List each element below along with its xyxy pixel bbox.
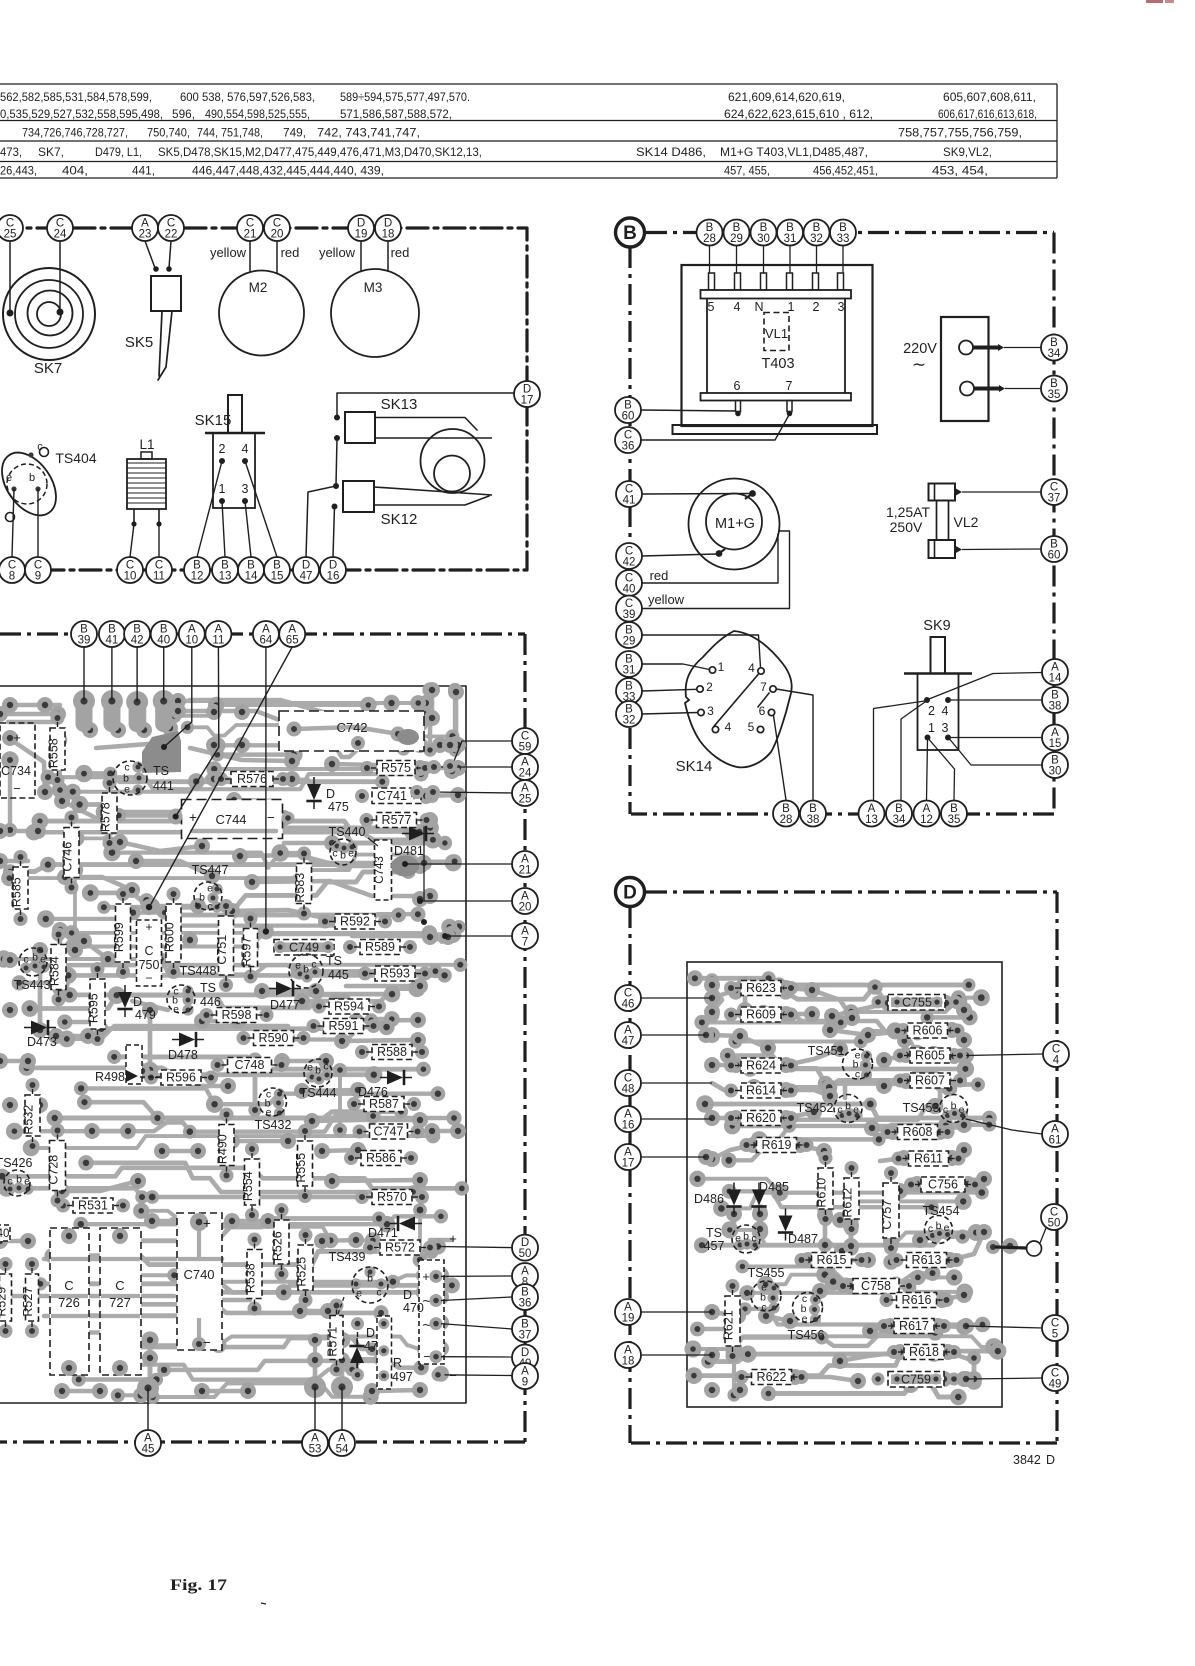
svg-text:R617: R617: [899, 1319, 929, 1333]
svg-text:2: 2: [813, 300, 820, 314]
resistor R614: [724, 1083, 798, 1098]
wire A47 to PCB D: [641, 1034, 706, 1036]
svg-text:46: 46: [622, 999, 635, 1011]
capacitor C747: [353, 1124, 425, 1139]
motor M2: [219, 271, 304, 356]
svg-text:D: D: [366, 1326, 375, 1340]
svg-text:∼: ∼: [912, 355, 926, 374]
svg-text:e: e: [295, 960, 301, 972]
PCB D copper traces: [693, 978, 998, 1397]
transistor TS454: [923, 1204, 960, 1244]
diode D471: [368, 1216, 422, 1240]
wire L1 to C10: [130, 524, 134, 557]
svg-text:R577: R577: [382, 813, 412, 827]
resistor R615: [795, 1253, 869, 1268]
node A8 (right): [512, 1263, 538, 1289]
svg-text:yellow: yellow: [319, 245, 356, 260]
svg-text:12: 12: [191, 571, 204, 583]
svg-text:+: +: [422, 1269, 430, 1284]
node A23: [132, 215, 158, 241]
svg-text:3: 3: [838, 300, 845, 314]
svg-text:4: 4: [242, 442, 249, 456]
node D50 (right): [512, 1235, 538, 1261]
svg-text:D: D: [403, 1288, 412, 1302]
node A11 (top): [205, 621, 231, 647]
node C9: [25, 557, 51, 583]
svg-text:R614: R614: [746, 1084, 776, 1098]
svg-text:R590: R590: [259, 1031, 289, 1045]
svg-text:39: 39: [78, 635, 91, 647]
svg-text:1,25AT: 1,25AT: [886, 504, 931, 520]
resistor R526: [271, 1203, 290, 1281]
svg-text:c: c: [207, 901, 212, 913]
resistor R555: [294, 1124, 313, 1203]
transistor TS444: [300, 1059, 337, 1100]
svg-text:22: 22: [165, 229, 178, 241]
parts table row 2: [0, 108, 1037, 121]
section B badge: [616, 218, 645, 247]
resistor R599: [112, 887, 131, 979]
svg-text:61: 61: [1049, 1135, 1062, 1147]
resistor R616: [880, 1293, 954, 1308]
rectifier D470 terminals (dashed box): [419, 1260, 444, 1364]
svg-text:10: 10: [124, 571, 137, 583]
resistor R592: [318, 914, 392, 929]
resistor R498 (pointer): [95, 1045, 160, 1084]
resistor R490: [216, 1108, 235, 1183]
node A10 (top): [179, 621, 205, 647]
svg-text:457: 457: [704, 1239, 725, 1253]
svg-text:40: 40: [623, 584, 636, 596]
wire A45: [147, 1388, 149, 1430]
node B60 (left): [615, 397, 641, 423]
svg-text:c: c: [855, 1069, 860, 1081]
resistor R594: [312, 999, 386, 1014]
svg-text:441: 441: [153, 779, 174, 793]
svg-text:D486: D486: [694, 1192, 724, 1206]
svg-text:19: 19: [355, 229, 368, 241]
svg-text:TS447: TS447: [192, 863, 229, 877]
svg-text:b: b: [315, 1065, 321, 1077]
svg-text:42: 42: [623, 557, 636, 569]
svg-text:yellow: yellow: [648, 592, 685, 607]
capacitor C726: [50, 1228, 89, 1376]
wire C40 to M1+G (red): [642, 534, 778, 583]
label D470: [403, 1288, 424, 1315]
svg-text:R605: R605: [915, 1049, 945, 1063]
node C24: [47, 215, 73, 241]
node C5: [1042, 1315, 1068, 1341]
svg-text:e: e: [307, 1062, 313, 1074]
svg-text:38: 38: [807, 814, 820, 826]
capacitor C741: [355, 788, 439, 804]
svg-text:b: b: [936, 1220, 942, 1232]
svg-text:12: 12: [920, 814, 933, 826]
svg-text:c: c: [376, 1287, 381, 1299]
svg-text:TS440: TS440: [329, 825, 366, 839]
wire B37: [441, 1324, 512, 1329]
svg-text:e: e: [959, 1104, 965, 1116]
node A13 (bottom): [859, 801, 885, 827]
svg-text:490,554,598,525,555,: 490,554,598,525,555,: [205, 108, 310, 121]
node B31 (left): [616, 651, 642, 677]
svg-text:758,757,755,756,759,: 758,757,755,756,759,: [898, 127, 1022, 140]
svg-text:−: −: [267, 810, 275, 825]
svg-text:C: C: [144, 944, 153, 958]
transistor TS453: [903, 1095, 969, 1123]
svg-text:C748: C748: [235, 1058, 265, 1072]
svg-text:D487: D487: [788, 1232, 818, 1246]
svg-text:621,609,614,620,619,: 621,609,614,620,619,: [728, 91, 845, 104]
svg-text:b: b: [199, 892, 205, 904]
svg-text:R: R: [393, 1356, 402, 1370]
svg-text:29: 29: [623, 636, 636, 648]
wire C36 to T403 pin7: [641, 414, 790, 440]
resistor R600: [163, 887, 182, 979]
wire A11 to PCB: [176, 647, 219, 817]
svg-text:D471: D471: [368, 1226, 398, 1240]
resistor R587: [347, 1097, 421, 1112]
svg-text:e: e: [356, 1288, 362, 1300]
svg-text:29: 29: [730, 233, 743, 245]
svg-text:C756: C756: [928, 1178, 958, 1192]
svg-text:20: 20: [271, 229, 284, 241]
node D47: [293, 557, 319, 583]
svg-text:32: 32: [623, 715, 636, 727]
svg-text:TS404: TS404: [55, 450, 96, 466]
svg-text:3: 3: [242, 482, 249, 496]
svg-text:53: 53: [309, 1444, 322, 1456]
wire A64 to PCB: [265, 647, 267, 932]
wire C41 to M1+G: [642, 493, 750, 496]
switch SK12: [332, 481, 493, 528]
svg-text:R527: R527: [21, 1287, 35, 1317]
node A15: [1042, 725, 1068, 751]
svg-text:30: 30: [757, 233, 770, 245]
svg-text:R624: R624: [746, 1059, 776, 1073]
svg-text:b: b: [367, 1273, 373, 1285]
svg-text:9: 9: [35, 571, 41, 583]
node B39 (top): [71, 621, 97, 647]
resistor R597: [240, 912, 258, 984]
svg-text:11: 11: [153, 571, 165, 583]
svg-text:b: b: [845, 1100, 851, 1112]
capacitor C759: [872, 1372, 961, 1388]
node A18 (left): [615, 1342, 641, 1368]
mains plug 220V: [903, 317, 1005, 421]
resistor R610: [815, 1151, 834, 1226]
svg-text:41: 41: [623, 495, 636, 507]
svg-text:497: 497: [392, 1370, 413, 1384]
capacitor C750: [137, 920, 162, 986]
diode D485: [751, 1180, 789, 1215]
svg-text:c: c: [7, 1176, 12, 1188]
svg-text:445: 445: [328, 968, 349, 982]
svg-text:+: +: [203, 1216, 211, 1231]
svg-text:R610: R610: [815, 1178, 829, 1208]
wire TS404 e to C8: [12, 489, 14, 557]
svg-text:R594: R594: [334, 1000, 364, 1014]
wire SK13 to SK12: [336, 438, 337, 485]
wire L1 to C11: [158, 524, 160, 557]
svg-text:b: b: [29, 472, 35, 484]
svg-text:M1+G: M1+G: [715, 516, 755, 532]
svg-text:R615: R615: [817, 1253, 847, 1267]
node A54 (bottom): [329, 1430, 355, 1456]
svg-text:C751: C751: [215, 935, 229, 965]
svg-text:B: B: [623, 223, 637, 244]
svg-text:N: N: [754, 300, 763, 314]
node C37: [1041, 479, 1067, 505]
wire SK12 to D16: [333, 507, 335, 558]
resistor R606: [891, 1023, 965, 1038]
svg-text:7: 7: [760, 680, 767, 694]
node C49: [1042, 1365, 1068, 1391]
svg-text:30: 30: [1049, 766, 1062, 778]
svg-text:SK14: SK14: [676, 758, 713, 775]
svg-text:b: b: [16, 1174, 22, 1186]
svg-text:R589: R589: [365, 940, 395, 954]
svg-text:457, 455,: 457, 455,: [724, 165, 770, 178]
node A21 (right): [512, 851, 538, 877]
svg-text:5: 5: [1052, 1329, 1058, 1341]
wire C21 to M2 (yellow): [210, 241, 250, 273]
svg-text:R570: R570: [377, 1190, 407, 1204]
svg-text:R595: R595: [87, 993, 101, 1023]
node C22: [158, 215, 184, 241]
svg-text:C749: C749: [289, 941, 319, 955]
wire B41 to PCB: [111, 647, 113, 700]
node B29 (top): [724, 220, 750, 246]
node A65 (top): [279, 621, 305, 647]
svg-text:c: c: [23, 954, 28, 966]
copper area near A10: [142, 731, 181, 773]
svg-text:4: 4: [1053, 1055, 1060, 1067]
wire C39 to M1+G (yellow): [642, 531, 790, 609]
wire SK9-1 to B35: [930, 740, 955, 800]
svg-text:M1+G T403,VL1,D485,487,: M1+G T403,VL1,D485,487,: [720, 146, 868, 159]
resistor R620: [724, 1111, 798, 1126]
svg-text:15: 15: [271, 571, 284, 583]
diode D481: [394, 826, 434, 858]
svg-text:−: −: [449, 1368, 457, 1383]
svg-text:54: 54: [336, 1444, 349, 1456]
stray mark: [261, 1603, 266, 1604]
svg-text:TS456: TS456: [788, 1328, 825, 1342]
wire A18 to PCB D: [641, 1354, 712, 1356]
svg-text:1: 1: [928, 721, 935, 735]
resistor R531: [56, 1198, 130, 1213]
section D badge: [616, 878, 645, 907]
svg-text:15: 15: [1049, 738, 1062, 750]
svg-text:−: −: [145, 971, 152, 985]
svg-text:479: 479: [135, 1008, 156, 1022]
wire SK15-4 to B15: [245, 461, 277, 557]
node A16 (left): [615, 1106, 641, 1132]
svg-text:744, 751,748,: 744, 751,748,: [197, 127, 263, 140]
svg-text:c: c: [332, 848, 337, 860]
svg-text:D476: D476: [358, 1085, 388, 1099]
node A19 (left): [615, 1299, 641, 1325]
node C11: [146, 557, 172, 583]
transistor TS404: [0, 441, 97, 525]
svg-text:21: 21: [519, 865, 532, 877]
wire A25: [433, 792, 512, 793]
node B33 (left): [616, 678, 642, 704]
fuse VL2: [886, 484, 979, 559]
wire fuse to C37: [962, 491, 1041, 493]
wire C24 to SK7: [59, 241, 61, 312]
svg-text:45: 45: [142, 1444, 155, 1456]
wire A19 to PCB D: [641, 1311, 712, 1313]
svg-text:4: 4: [725, 720, 732, 734]
node B60 (fuse): [1041, 536, 1067, 562]
wire C49 to PCB D: [966, 1378, 1043, 1379]
node B38 (right): [1042, 687, 1068, 713]
svg-text:C740: C740: [183, 1267, 214, 1282]
svg-text:13: 13: [865, 814, 878, 826]
node B32 (top): [804, 220, 830, 246]
node B33 (top): [830, 220, 856, 246]
node C39: [616, 596, 642, 622]
diode D477: [269, 981, 301, 1012]
svg-text:R599: R599: [112, 922, 126, 952]
wire SK15-3 to B14: [245, 501, 251, 557]
svg-text:SK7: SK7: [34, 360, 62, 377]
svg-text:34: 34: [1048, 348, 1061, 360]
svg-text:R591: R591: [329, 1019, 359, 1033]
node C50: [1041, 1204, 1067, 1230]
wire A61 to PCB D: [966, 1119, 1042, 1134]
resistor R607: [893, 1073, 967, 1088]
svg-text:250V: 250V: [890, 519, 923, 535]
node C10: [117, 557, 143, 583]
svg-text:−: −: [203, 1335, 211, 1350]
svg-text:441,: 441,: [132, 165, 155, 178]
svg-text:39: 39: [623, 609, 636, 621]
svg-text:5: 5: [708, 300, 715, 314]
wire SK9-4 to B38: [951, 699, 1042, 701]
node B31 (top): [777, 220, 803, 246]
node B30 (right): [1042, 752, 1068, 778]
svg-text:c: c: [837, 1104, 842, 1116]
wire SK12 to D47: [306, 486, 336, 557]
fuse VL1 (dashed): [764, 313, 789, 351]
svg-text:TS432: TS432: [255, 1118, 292, 1132]
resistor R558: [47, 711, 66, 787]
resistor R554: [241, 1142, 260, 1222]
wire SK9-2 to B34: [901, 702, 925, 800]
resistor R605: [893, 1048, 967, 1063]
node B28 (bottom): [773, 801, 799, 827]
resistor R593: [358, 966, 432, 981]
svg-text:R607: R607: [915, 1074, 945, 1088]
resistor R577: [360, 813, 434, 828]
node C25: [0, 215, 23, 241]
svg-text:606,617,616,613,618,: 606,617,616,613,618,: [938, 108, 1037, 121]
parts table row 3: [22, 127, 1022, 140]
resistor R525: [295, 1228, 314, 1307]
resistor R576: [214, 772, 290, 787]
svg-text:35: 35: [1048, 389, 1061, 401]
PCB A solder pads: [0, 682, 469, 1405]
svg-text:TS: TS: [153, 764, 169, 778]
svg-text:SK5: SK5: [125, 334, 153, 351]
svg-text:R592: R592: [340, 915, 370, 929]
svg-text:446: 446: [200, 995, 221, 1009]
svg-text:b: b: [951, 1100, 957, 1112]
svg-text:473,: 473,: [0, 146, 22, 159]
wire C22 to SK5: [169, 241, 171, 268]
wire SK15-1 to B13: [222, 501, 225, 557]
svg-text:TS426: TS426: [0, 1156, 32, 1170]
resistor R612: [841, 1161, 860, 1236]
PCB A outline: [0, 686, 466, 1403]
node D16: [320, 557, 346, 583]
svg-text:14: 14: [245, 571, 258, 583]
drawing number 3842 D: [1013, 1453, 1055, 1467]
svg-text:R572: R572: [385, 1241, 415, 1255]
switch SK9: [904, 618, 972, 750]
svg-text:453, 454,: 453, 454,: [932, 165, 988, 178]
section B border (dash-dot): [630, 233, 1054, 815]
capacitor C744: [170, 800, 295, 839]
wire fuse to B60: [962, 548, 1041, 551]
wire C48 to PCB D: [641, 1082, 712, 1084]
wire C20 to M2 (red): [277, 241, 299, 274]
switch SK5: [125, 276, 181, 380]
wire C46 to PCB D: [641, 997, 712, 999]
svg-text:3: 3: [942, 721, 949, 735]
svg-text:40: 40: [0, 1228, 9, 1240]
parts table row 4: [0, 146, 992, 159]
resistor R623: [724, 981, 798, 996]
resistor R586: [344, 1151, 418, 1166]
svg-text:35: 35: [948, 814, 961, 826]
svg-text:R490: R490: [216, 1134, 230, 1164]
node D49 (right): [512, 1345, 538, 1371]
svg-text:37: 37: [1048, 493, 1061, 505]
svg-text:L1: L1: [139, 437, 154, 452]
node B35 (bottom): [941, 801, 967, 827]
svg-text:e: e: [735, 1233, 741, 1245]
svg-text:c: c: [751, 1233, 756, 1245]
svg-text:c: c: [311, 959, 316, 971]
svg-text:31: 31: [784, 233, 797, 245]
svg-text:50: 50: [1048, 1218, 1061, 1230]
wire plug to B34: [1004, 347, 1041, 349]
transistor TS441: [113, 761, 174, 796]
svg-text:C759: C759: [901, 1373, 931, 1387]
svg-text:c: c: [928, 1223, 933, 1235]
svg-text:e: e: [802, 1313, 808, 1325]
capacitor C740: [177, 1213, 222, 1351]
resistor R596: [144, 1070, 218, 1085]
parts table row 1: [0, 91, 1036, 104]
resistor R578: [99, 776, 118, 850]
svg-text:750,740,: 750,740,: [147, 127, 190, 140]
node C40: [616, 570, 642, 596]
diode D487: [778, 1209, 818, 1247]
node B38 (bottom): [800, 801, 826, 827]
svg-text:TS451: TS451: [808, 1044, 845, 1058]
resistor R613: [890, 1253, 964, 1268]
svg-text:R586: R586: [366, 1151, 396, 1165]
parts table row 5: [0, 165, 988, 178]
resistor R608: [881, 1125, 955, 1140]
node B36 (right): [512, 1284, 538, 1310]
resistor R497: [377, 1316, 413, 1389]
